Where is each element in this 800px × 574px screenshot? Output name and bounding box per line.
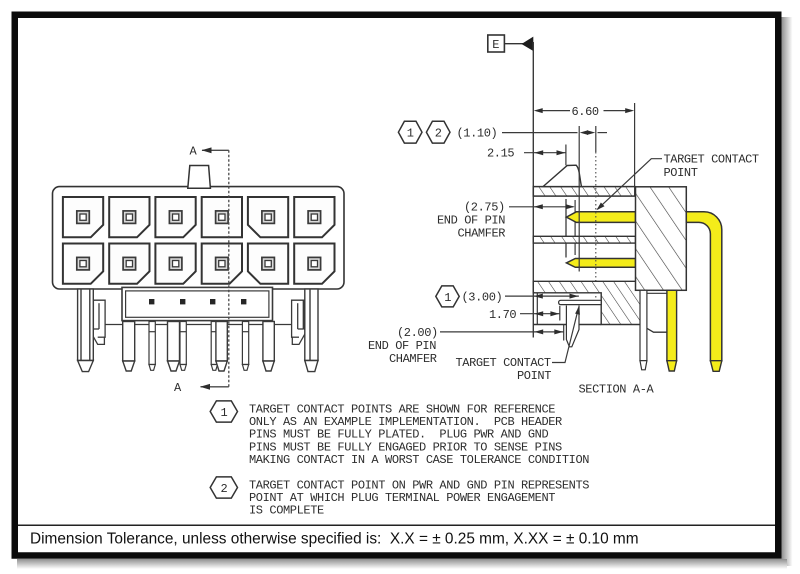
dim 6.60 bbox=[537, 103, 635, 187]
inner wide pin a bbox=[123, 322, 135, 372]
svg-text:(2.00): (2.00) bbox=[397, 326, 438, 340]
drop shadow right bbox=[782, 17, 793, 566]
polarization tab on top bbox=[188, 166, 211, 189]
dim (2.75) leader bbox=[509, 200, 575, 255]
inner narrow pin d bbox=[242, 322, 248, 371]
right body block (hatched) bbox=[636, 187, 687, 290]
top latch wedge bbox=[543, 165, 582, 186]
svg-text:Dimension Tolerance, unless ot: Dimension Tolerance, unless otherwise sp… bbox=[30, 531, 639, 548]
svg-text:CHAMFER: CHAMFER bbox=[389, 352, 437, 366]
datum flag leader bbox=[504, 43, 523, 45]
svg-text:(3.00): (3.00) bbox=[462, 290, 503, 304]
cavity row1 col3 bbox=[155, 197, 195, 237]
svg-text:POINT: POINT bbox=[664, 166, 698, 180]
note hexagon 1 (upper) bbox=[398, 121, 422, 143]
svg-text:(2.75): (2.75) bbox=[464, 200, 505, 214]
cavity row1 col1 bbox=[63, 197, 103, 237]
svg-text:(1.10): (1.10) bbox=[457, 127, 498, 141]
cavity row2 col6 bbox=[294, 244, 334, 284]
datum line E bbox=[532, 42, 534, 338]
svg-text:A: A bbox=[174, 381, 182, 395]
svg-text:2: 2 bbox=[435, 127, 442, 141]
lower cavity bottom edge bbox=[533, 324, 601, 326]
section arrow top bbox=[202, 147, 212, 153]
svg-text:END OF PIN: END OF PIN bbox=[368, 339, 436, 353]
cavity row2 col5 bbox=[248, 244, 288, 284]
datum flag triangle bbox=[522, 37, 534, 51]
right outer pin 6 bbox=[305, 289, 318, 372]
sense pin in lower cavity bbox=[559, 300, 602, 304]
body chamfer step bbox=[640, 325, 667, 333]
svg-text:CHAMFER: CHAMFER bbox=[458, 226, 506, 240]
cavity row1 col5 bbox=[248, 197, 288, 237]
dim (3.00) hexagon 1 bbox=[436, 286, 459, 307]
middle web band (hatched) bbox=[533, 236, 635, 243]
PWR pin tip (yellow) bbox=[710, 361, 721, 372]
connector body outline bbox=[53, 187, 345, 289]
inner wide pin b bbox=[168, 322, 180, 372]
datum flag E box bbox=[488, 35, 505, 52]
lower GND pin (yellow, sectioned) bbox=[566, 259, 635, 268]
block bottom step line bbox=[640, 292, 667, 294]
pin contacts grid bbox=[77, 211, 321, 270]
svg-text:2.15: 2.15 bbox=[487, 147, 514, 161]
dim (2.00) bbox=[440, 325, 564, 341]
cavity row1 col4 bbox=[202, 197, 242, 237]
left mounting peg bbox=[90, 300, 105, 344]
note hexagon 2 (upper) bbox=[426, 121, 450, 143]
section cut line A-A bbox=[201, 150, 229, 386]
upper PWR pin (yellow, sectioned) bbox=[566, 212, 635, 223]
section arrow bottom bbox=[200, 384, 210, 390]
svg-text:1.70: 1.70 bbox=[489, 308, 516, 322]
right mounting peg bbox=[292, 300, 307, 344]
body standoff line bbox=[105, 324, 292, 326]
note 1 hexagon bbox=[210, 401, 237, 422]
svg-text:END OF PIN: END OF PIN bbox=[437, 213, 505, 227]
upper target leader bbox=[598, 159, 663, 210]
inner wide pin d bbox=[263, 322, 274, 372]
extension line 3.00 plane bbox=[578, 126, 580, 272]
lower target leader bbox=[552, 308, 579, 363]
svg-text:1: 1 bbox=[407, 127, 414, 141]
inner narrow pin a bbox=[149, 322, 155, 371]
inner narrow pin c bbox=[211, 322, 217, 371]
svg-text:POINT: POINT bbox=[517, 369, 551, 383]
svg-text:6.60: 6.60 bbox=[572, 105, 599, 119]
note 2 hexagon bbox=[210, 477, 237, 498]
cavity row1 col2 bbox=[109, 197, 149, 237]
latch windows bbox=[149, 299, 246, 304]
left outer pin 1 bbox=[78, 289, 94, 372]
svg-text:A: A bbox=[190, 145, 198, 159]
drop shadow bottom bbox=[17, 559, 787, 569]
svg-text:2: 2 bbox=[221, 482, 228, 496]
back row GND pin vertical (yellow) bbox=[667, 290, 677, 371]
front row pin (unplated, white) bbox=[640, 290, 647, 370]
lower cavity front wall bbox=[536, 293, 538, 325]
latch strip bbox=[122, 287, 273, 320]
tolerance separator line bbox=[15, 524, 776, 526]
cavity row2 col4 bbox=[202, 244, 242, 284]
inner narrow pin b bbox=[180, 322, 186, 371]
shroud top band (hatched) bbox=[533, 187, 635, 197]
svg-text:IS COMPLETE: IS COMPLETE bbox=[249, 504, 324, 518]
sense pin vertical (down) bbox=[566, 306, 579, 347]
target contact centerline (dashed) bbox=[595, 152, 597, 300]
svg-text:TARGET CONTACT: TARGET CONTACT bbox=[664, 152, 759, 166]
lower body block (hatched L-shape) bbox=[533, 281, 640, 324]
svg-text:SECTION A-A: SECTION A-A bbox=[579, 383, 655, 397]
cavity row2 col1 bbox=[63, 244, 103, 284]
pin-tip plane line bbox=[565, 199, 567, 258]
inner wide pin c bbox=[216, 322, 227, 372]
svg-text:MAKING CONTACT IN A WORST CASE: MAKING CONTACT IN A WORST CASE TOLERANCE… bbox=[249, 453, 589, 467]
svg-text:E: E bbox=[492, 38, 499, 52]
PWR pin right-angle bend (yellow) bbox=[686, 212, 722, 361]
cavity row2 col2 bbox=[109, 244, 149, 284]
cavity row1 col6 bbox=[294, 197, 334, 237]
svg-text:1: 1 bbox=[444, 291, 451, 305]
cavity row2 col3 bbox=[155, 244, 195, 284]
svg-text:1: 1 bbox=[221, 406, 228, 420]
